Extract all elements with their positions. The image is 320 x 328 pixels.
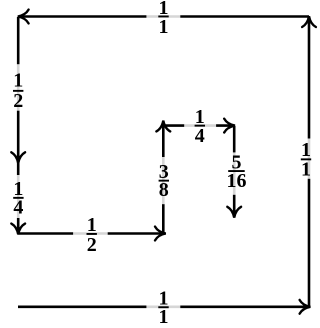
svg-text:4: 4 <box>195 125 205 147</box>
wire: inner lower horizontal (rightward arrow) <box>18 232 163 235</box>
svg-text:1: 1 <box>301 159 311 181</box>
arrowhead: inner lower horizontal pointing right <box>155 227 166 241</box>
arrowhead: left edge mid pointing down <box>11 152 25 163</box>
label 1/2 on left edge <box>10 64 28 112</box>
arrowhead: left edge bottom pointing down <box>11 224 25 235</box>
svg-text:1: 1 <box>159 306 169 328</box>
wire: top edge (leftward arrow) <box>20 15 310 18</box>
svg-text:1: 1 <box>87 214 97 236</box>
label 1/1 on bottom edge <box>146 287 180 328</box>
wire: inner top horizontal 1/4 (rightward arrow) <box>163 124 232 127</box>
arrowhead: right edge pointing up <box>302 16 316 27</box>
svg-text:2: 2 <box>87 234 97 256</box>
wire: right edge (upward arrow) <box>308 18 311 306</box>
label 3/8 on inner vertical <box>155 157 173 204</box>
label 1/4 on left edge <box>10 175 28 219</box>
label 1/1 on right edge <box>297 139 315 181</box>
wire: left edge (two downward arrows) <box>17 17 20 233</box>
wire: inner right vertical 5/16 (downward arrow) <box>233 126 236 216</box>
svg-text:4: 4 <box>13 197 23 219</box>
arrowhead: inner 5/16 pointing down <box>227 207 241 218</box>
arrowhead: bottom edge pointing right <box>300 300 311 314</box>
wire: inner vertical 3/8 (upward arrow) <box>162 123 165 234</box>
label 1/4 on inner top horizontal <box>184 106 216 147</box>
svg-text:1: 1 <box>13 70 23 92</box>
svg-text:16: 16 <box>227 170 247 192</box>
arrowhead: top edge pointing left <box>18 10 29 24</box>
label 1/1 on top edge <box>146 0 180 38</box>
label 5/16 on inner right vertical <box>225 152 248 195</box>
svg-text:8: 8 <box>159 179 169 201</box>
arrowhead: inner 3/8 pointing up <box>156 121 170 132</box>
wire: bottom edge (rightward arrow) <box>18 305 308 308</box>
svg-text:1: 1 <box>159 16 169 38</box>
svg-text:2: 2 <box>13 90 23 112</box>
label 1/2 on inner lower horizontal <box>73 214 108 256</box>
arrowhead: inner 1/4 pointing right <box>224 119 235 133</box>
